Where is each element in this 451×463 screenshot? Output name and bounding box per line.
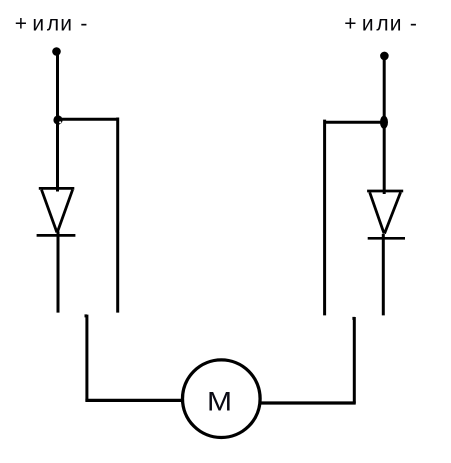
motor M1 circle xyxy=(183,360,261,438)
wire left junction to diode anode xyxy=(56,120,59,192)
brush stub right xyxy=(352,317,355,404)
junction node left xyxy=(53,115,62,124)
diode VD1 triangle xyxy=(42,190,73,233)
diode VD2 triangle xyxy=(370,192,401,233)
wire right bottom horizontal to motor xyxy=(260,401,356,404)
brush stub left xyxy=(85,315,88,402)
junction node right xyxy=(380,116,388,129)
diode VD2 cathode bar xyxy=(368,237,405,240)
wire left bottom horizontal to motor xyxy=(85,399,184,402)
wire right return vertical xyxy=(323,120,326,316)
wire right terminal to junction xyxy=(383,55,386,122)
svg-text:M: M xyxy=(207,387,232,417)
wire right junction to diode anode xyxy=(383,122,386,194)
wire right junction horizontal to return branch xyxy=(324,121,384,124)
wire left junction horizontal to return branch xyxy=(58,118,119,121)
terminal dot left xyxy=(52,47,61,56)
wire right diode cathode down xyxy=(382,234,385,315)
terminal dot right xyxy=(380,52,389,61)
wire left return vertical xyxy=(116,118,119,313)
wire left terminal to junction xyxy=(56,51,59,120)
diode VD1 cathode bar xyxy=(37,234,76,237)
diode VD2 anode bar xyxy=(367,190,403,193)
wire left diode cathode down xyxy=(57,232,60,313)
diode VD1 anode bar xyxy=(39,187,75,190)
